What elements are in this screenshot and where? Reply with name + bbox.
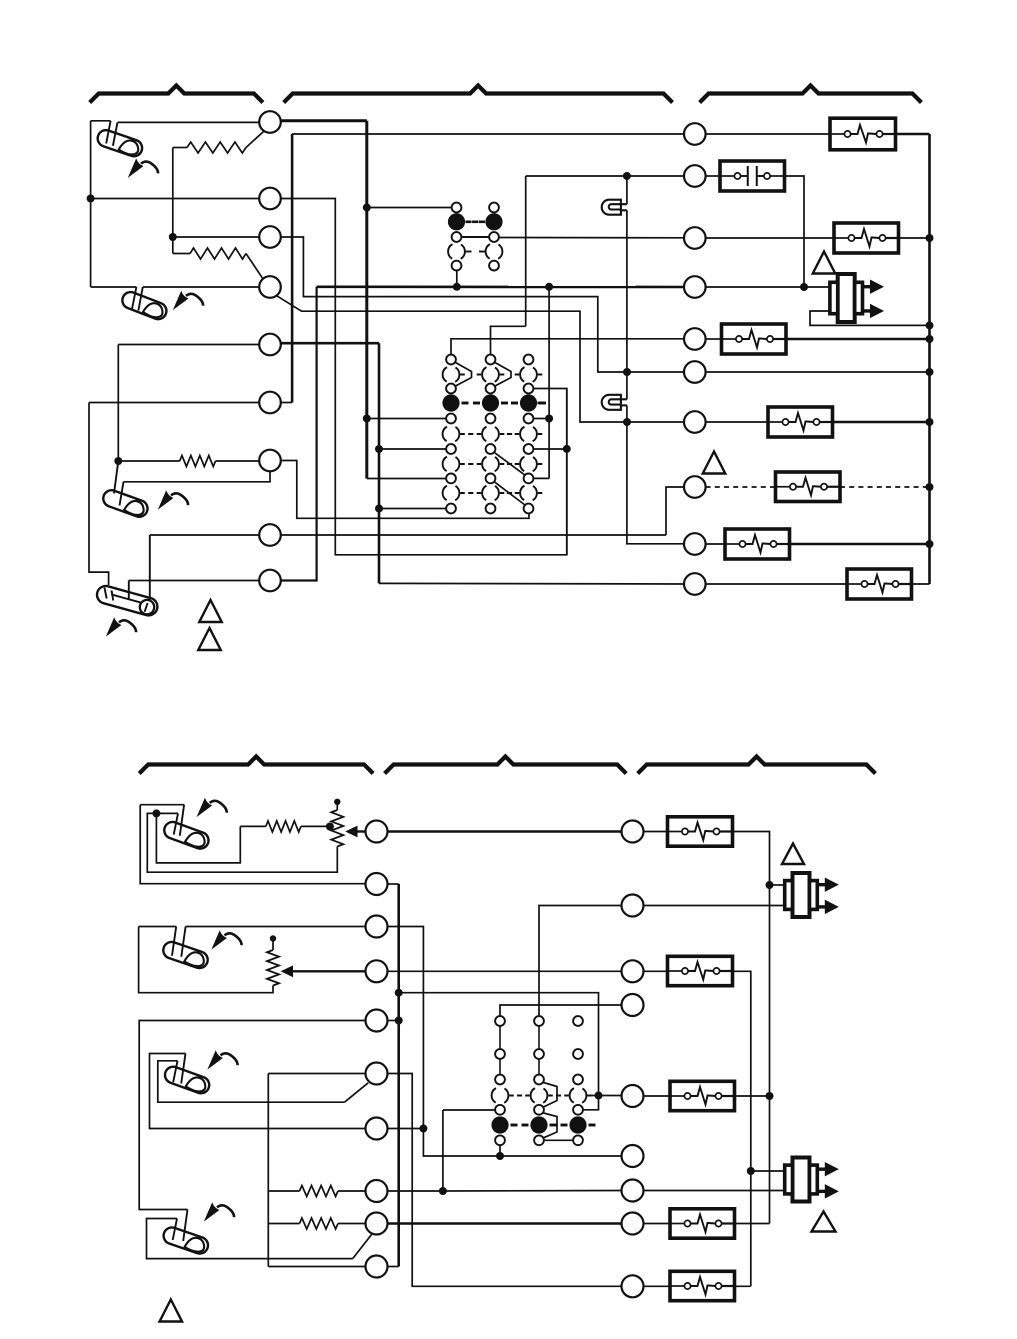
wire col3 s4 lead [583, 1096, 599, 1110]
wire R4 lead right [301, 825, 331, 827]
wire T9 left lead [129, 580, 259, 582]
junction x423/L7 [419, 1125, 427, 1133]
wire T4 left lead a [91, 286, 137, 288]
junction v3 feed [747, 1167, 755, 1175]
resistor R3 [180, 456, 216, 467]
subbase terminal R6 [684, 361, 706, 383]
subbase terminal R3 [684, 227, 706, 249]
wire SW6 right lead [186, 926, 366, 928]
electrode SW5-e1 [180, 805, 184, 836]
wire Rb2 left path [539, 906, 622, 1017]
junction pair bottom tap [453, 283, 461, 291]
wire x750 lower [750, 1171, 752, 1286]
wire R4 lead left [240, 825, 265, 827]
heat anticipator box HA4 [768, 407, 833, 437]
wire Rb4 left path [500, 1005, 622, 1016]
wire x627 to T9R [627, 422, 684, 544]
wire relay row9 lead [367, 478, 446, 480]
thermostat terminal L5 [259, 334, 281, 356]
thermostat terminal Lb4 [366, 960, 388, 982]
thermostat terminal Lb1 [366, 821, 388, 843]
wire HA4 to bus [833, 421, 930, 424]
wire L1 to R1b wire [388, 830, 622, 833]
wire L8 to R7b [443, 1190, 622, 1193]
warning triangle note-5 [199, 600, 222, 622]
wire v3 feed lead [751, 1170, 785, 1172]
junction SW5 e2 node [152, 809, 160, 817]
wire R2 drop [172, 237, 174, 254]
wire T3 right path [281, 237, 684, 372]
wire cap riser x525 [525, 176, 527, 326]
junction x442/L8 [439, 1187, 447, 1195]
electrode SW3-e2 [120, 482, 124, 506]
thermostat terminal Lb9 [366, 1213, 388, 1235]
brace bot-2 [385, 757, 627, 774]
wire HB2 riser [733, 971, 751, 1171]
wire x423 to R6b wire [423, 1129, 621, 1157]
wire right bus [928, 134, 931, 584]
warning triangle note-3 [782, 844, 804, 865]
junction bus/544 [926, 540, 934, 548]
junction bus/422 [926, 418, 934, 426]
wire L3 right path [388, 927, 424, 1129]
wire R1 arm diagonal [246, 131, 264, 147]
wire R5b lead right [338, 1190, 366, 1192]
junction x549 row418 tap [545, 415, 553, 423]
wire col3 row449 lead [533, 448, 566, 450]
electrode SW4-e3tip [145, 603, 148, 612]
wire HA7 to bus [912, 583, 930, 585]
rotation arrow SW3 [160, 492, 189, 508]
warning triangle note-4 [812, 1212, 836, 1232]
electrode SW6-e2 [181, 927, 185, 957]
wire SW7 inner loop [158, 1061, 345, 1102]
subbase terminal R9 [684, 533, 706, 555]
potentiometer POT2 [267, 950, 279, 986]
junction pot1 top [334, 799, 340, 805]
wire HB5 to x750 [735, 1285, 751, 1287]
junction R1/T3 junction [169, 233, 177, 241]
wire HA3 to bus [786, 338, 930, 341]
wire HA2 to bus [899, 237, 930, 239]
wire R2 lead [706, 175, 720, 177]
mercury switch SW5 [162, 820, 211, 851]
wire T9 right path [281, 287, 317, 581]
wire T8 long wire [281, 534, 666, 536]
heat anticipator box HB4 [670, 1209, 735, 1238]
wire col3 D lead [587, 1095, 622, 1097]
valve/actuator V3 [785, 1158, 839, 1202]
junction B-row509 tap [375, 505, 383, 513]
wire R1 lead [706, 133, 830, 135]
electrode SW3-e1 [114, 461, 118, 494]
wire Rb2 to valve [644, 905, 785, 907]
mercury switch SW2 [120, 290, 169, 322]
wire common wire y287 [317, 285, 684, 288]
heat anticipator box HB5 [670, 1271, 735, 1300]
junction x598/1095 [595, 1092, 603, 1100]
electrode SW1-e1 [106, 121, 110, 144]
wire T5 right lead [281, 342, 379, 345]
wire T7 bottom lead [124, 471, 271, 482]
wire col1 bottom drop [499, 1145, 501, 1156]
junction bus/372 [926, 368, 934, 376]
warning triangle note-6 [198, 628, 221, 650]
wire vertical B [378, 343, 381, 583]
electrode SW8-e1 [183, 1210, 187, 1242]
subbase terminal R5 [684, 328, 706, 350]
rotation arrow SW8 [206, 1204, 235, 1220]
thermostat terminal L3 [259, 226, 281, 248]
wire x268 vertical [267, 1074, 269, 1267]
subbase terminal Rb4 [622, 994, 644, 1016]
junction x549 top tap [545, 283, 553, 291]
rotation arrow SW5 [198, 800, 227, 816]
wire R3 lead left [118, 460, 179, 462]
electrode SW4-e1 [104, 588, 106, 599]
subbase terminal R1 [684, 123, 706, 145]
resistor R6b [300, 1218, 339, 1229]
junction x627/y372 [623, 368, 631, 376]
wire R3 lead right [216, 460, 260, 462]
wire R4 lead [706, 286, 804, 288]
wire T2 right path [281, 199, 567, 555]
junction col3 row449 tap [563, 445, 571, 453]
wire R1 lead [173, 147, 187, 149]
wire x442 vertical [442, 1110, 444, 1191]
wire L10 left lead [268, 1266, 365, 1268]
junction x398/1020 [395, 1017, 403, 1025]
electrode SW8-e2 [173, 1219, 177, 1241]
mercury switch SW1 [95, 128, 144, 159]
junction bus/325 [926, 321, 934, 329]
thermostat terminal Lb2 [366, 873, 388, 895]
electrode SW2-e1 [132, 287, 136, 309]
wire pair col1 bottom lead [456, 270, 458, 287]
wire pot1 wiper [353, 830, 366, 832]
wire L4 to R3b wire [388, 970, 622, 972]
wire R5 lead [706, 338, 722, 340]
heat anticipator box HB1 [668, 817, 733, 846]
wire x549 vertical [548, 287, 550, 479]
heater loop loop1 [602, 200, 627, 215]
thermostat terminal L2 [259, 188, 281, 210]
wire valve return [810, 311, 930, 325]
wire L6 arm diagonal [345, 1083, 369, 1102]
thermostat terminal Lb10 [366, 1256, 388, 1278]
wire Rb3 lead [644, 970, 668, 972]
wire SW5 e1 lead [140, 804, 184, 806]
wire x627 vertical d [626, 405, 628, 422]
mercury switch SW3 [101, 488, 150, 519]
relay contact pair block [448, 203, 503, 271]
subbase terminal Rb5 [622, 1085, 644, 1107]
rotation arrow SW4 [108, 619, 137, 635]
wire x567 vertical [566, 389, 568, 555]
electrode SW4-e1b [112, 591, 114, 601]
wire Rb8 lead [644, 1223, 671, 1225]
wire SW5 inner loop [156, 813, 240, 863]
thermostat terminal L8 [259, 524, 281, 546]
valve/actuator V2 [785, 873, 839, 917]
capacitor box CAP1 [720, 161, 785, 191]
wire T6 right riser [291, 134, 294, 403]
wire Rb1 lead [644, 831, 668, 833]
wire R3 lead [706, 237, 834, 239]
electrode SW2-e2 [138, 287, 142, 311]
wire T5-R3 riser [117, 345, 119, 462]
relay block bottom [491, 1016, 595, 1145]
wire HA6 to bus [790, 543, 930, 546]
electrode SW5-e2 [174, 813, 178, 834]
wire HB1 riser [733, 832, 770, 886]
relay main block [442, 355, 546, 514]
wire SW5 outer loop [140, 805, 365, 884]
thermostat terminal Lb8 [366, 1180, 388, 1202]
wire T8 left lead [150, 534, 259, 536]
mercury switch SW8 [161, 1225, 210, 1256]
brace bot-3 [638, 757, 876, 774]
wire HB3 to x769 [735, 1095, 770, 1097]
brace top-2 [284, 86, 673, 103]
wire T6 left lead [89, 402, 259, 404]
wire vertical A [365, 121, 368, 479]
electrode SW1-e2 [113, 122, 118, 145]
wire T2 left lead [91, 198, 260, 200]
pot1 wiper arrowhead [345, 826, 357, 838]
wire relay row7 lead [379, 448, 446, 450]
warning triangle note-7 [160, 1300, 183, 1322]
subbase terminal Rb8 [622, 1213, 644, 1235]
junction R3 junction [114, 457, 122, 465]
wire Rb7 to valve [644, 1190, 785, 1192]
wire T1 left lead [118, 121, 260, 123]
wire T10R long wire [379, 582, 684, 585]
wire SW7 outer loop [150, 1054, 366, 1129]
brace bot-1 [139, 757, 373, 774]
junction relay col1 bottom tap [496, 1152, 504, 1160]
wire x398 branch to relay [399, 993, 599, 1096]
junction A-relay tap [363, 415, 371, 423]
electrode SW6-e1 [172, 927, 176, 956]
electrode SW7-e1 [181, 1054, 185, 1084]
wire HB4 to x769 [735, 1223, 770, 1225]
wire L6 left lead [268, 1073, 365, 1075]
thermostat terminal Lb6 [366, 1063, 388, 1085]
electrode SW4-e3 [149, 535, 151, 602]
junction bus/487 [926, 483, 934, 491]
subbase terminal R7 [684, 411, 706, 433]
wire R2 arm diagonal [246, 254, 264, 280]
rotation arrow SW1 [130, 160, 159, 176]
thermostat terminal L4 [259, 276, 281, 298]
wire pot2 wiper [288, 970, 366, 972]
wire cap to valve [785, 176, 805, 287]
wire L5 right lead [388, 1020, 399, 1022]
wire L7 right lead [388, 1128, 424, 1130]
wire SW8 inner loop [147, 1219, 353, 1259]
wire wire y176 [526, 175, 684, 177]
heat anticipator box HA6 [725, 529, 790, 559]
subbase terminal Rb1 [622, 821, 644, 843]
pot2 wiper arrowhead [281, 965, 293, 977]
wire pot2 top lead [272, 939, 274, 951]
heat anticipator box HA7 [847, 569, 912, 599]
wire relay s4 lead [443, 1109, 495, 1111]
wire T1 right lead [281, 119, 367, 122]
wire col1 riser to T5R [451, 339, 684, 355]
wire Rb9 lead [644, 1285, 671, 1287]
rotation arrow SW2 [175, 293, 204, 309]
wire x627 vertical a [626, 176, 628, 204]
wire L5 left path [139, 1021, 365, 1210]
wire T7 right path [281, 461, 529, 519]
junction x398/992 [395, 989, 403, 997]
subbase terminal Rb9 [622, 1275, 644, 1297]
junction v2 feed [766, 881, 774, 889]
junction pot1 tap [326, 823, 334, 831]
wire T3 left lead [173, 236, 259, 238]
wire R6b lead left [268, 1223, 299, 1225]
valve/actuator V1 [830, 274, 884, 322]
heat anticipator box HA3 [722, 324, 787, 354]
wire x627 vertical b [626, 210, 628, 372]
warning triangle note-2 [703, 452, 726, 474]
wire SW1 top-left link [91, 120, 111, 122]
junction x769/1096 [766, 1092, 774, 1100]
wire T5 left lead [118, 344, 259, 346]
wire R9 lead [706, 543, 725, 545]
wire T4 arm path [276, 295, 684, 422]
thermostat terminal L1 [259, 111, 281, 133]
wire R5b lead left [268, 1190, 299, 1192]
wire L8 right lead [388, 1190, 443, 1192]
subbase terminal R8 [684, 476, 706, 498]
junction A-pair tap [363, 204, 371, 212]
wire L10 right lead [388, 1266, 399, 1268]
thermostat terminal L6 [259, 392, 281, 414]
wire L2 right lead [388, 883, 399, 885]
resistor R1 [187, 142, 246, 153]
wire x549 to col3 row478 [533, 477, 549, 479]
junction left bus / T2 [87, 195, 95, 203]
wire left vertical bus [90, 121, 92, 287]
wire Rb5 lead [644, 1095, 671, 1097]
wire HA5 dashed to bus [840, 486, 930, 488]
rotation arrow SW6 [213, 932, 242, 948]
mercury switch SW4 [95, 584, 159, 617]
wire x627 vertical c [626, 372, 628, 399]
junction valve feed [800, 283, 808, 291]
wire SW5 e2 lead [156, 812, 178, 814]
wire v2 feed lead [770, 884, 785, 886]
heat anticipator box HA1 [830, 118, 896, 150]
mercury switch SW6 [161, 940, 210, 971]
electrode SW4-e2 [128, 581, 130, 600]
wire R7 lead [706, 421, 768, 423]
wire HA1 to bus [896, 133, 930, 136]
thermostat terminal Lb7 [366, 1118, 388, 1140]
wire SW6 left lead [139, 926, 177, 928]
wire R6b lead right [338, 1223, 366, 1225]
wire relay row11 lead [379, 508, 446, 510]
junction pot2 top [270, 935, 276, 941]
mercury switch SW7 [163, 1064, 212, 1095]
subbase terminal R2 [684, 165, 706, 187]
wire T4 left lead b [143, 286, 259, 288]
potentiometer POT1 [331, 810, 343, 847]
wire R2 lead [173, 253, 190, 255]
wire R8 dashed lead [706, 486, 776, 488]
wire L6 right path [388, 1074, 622, 1287]
subbase terminal Rb2 [622, 895, 644, 917]
subbase terminal Rb7 [622, 1180, 644, 1202]
heat anticipator box HA2 [834, 223, 899, 253]
wire relay row5 lead [367, 418, 446, 420]
rotation arrow SW7 [209, 1052, 238, 1068]
wire pot1 bottom loop [147, 813, 337, 872]
subbase terminal R10 [684, 573, 706, 595]
brace top-1 [90, 86, 263, 103]
wire L9 right lead [388, 1222, 622, 1225]
wire T6 right lead [281, 402, 292, 404]
wire valve feed lead [804, 286, 830, 288]
wire pot2 bottom loop [139, 927, 273, 993]
thermostat terminal Lb5 [366, 1010, 388, 1032]
junction bus/339 [926, 335, 934, 343]
heat anticipator box HB3 [670, 1081, 735, 1110]
subbase terminal Rb3 [622, 960, 644, 982]
wire x398 vertical [397, 884, 400, 1267]
resistor R4b [266, 821, 301, 832]
thermostat terminal L9 [259, 570, 281, 592]
wire x769 vertical [769, 885, 771, 1224]
warning triangle note-1 [813, 252, 836, 274]
wire R6 lead to bus [706, 371, 930, 373]
wire T6 to SW4 [89, 403, 109, 586]
electrode SW7-e2 [173, 1061, 177, 1082]
heat anticipator box HA5 [776, 472, 841, 502]
wire row418 link [533, 418, 549, 420]
resistor R5b [300, 1186, 339, 1197]
wire L9 arm diagonal [353, 1234, 372, 1258]
wire R10 lead [706, 583, 847, 585]
wire pair col2 riser [491, 326, 526, 354]
thermostat terminal L7 [259, 450, 281, 472]
wire pair row3 to T3R [499, 237, 684, 239]
wire R1 left riser [172, 148, 174, 238]
junction y176/x627 [623, 172, 631, 180]
wire T8R left path [666, 487, 684, 535]
heater loop loop2 [602, 395, 627, 410]
heat anticipator box HB2 [668, 956, 733, 985]
wire long wire y134 [292, 133, 684, 135]
wire pot1 top lead [336, 802, 338, 810]
junction bus/238 [926, 234, 934, 242]
junction B-row449 tap [375, 445, 383, 453]
subbase terminal R4 [684, 276, 706, 298]
thermostat terminal Lb3 [366, 916, 388, 938]
brace top-3 [700, 86, 922, 103]
junction x627/y422 [623, 418, 631, 426]
wire pair col1 top lead [367, 207, 452, 209]
subbase terminal Rb6 [622, 1145, 644, 1167]
resistor R2 [190, 248, 246, 259]
